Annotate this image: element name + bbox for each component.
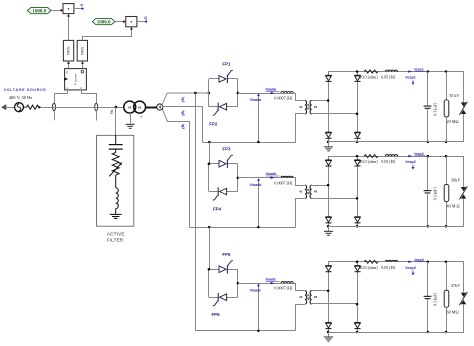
wire K1 to multiplier M1 xyxy=(51,9,63,12)
wire bridge leg right xyxy=(357,156,359,226)
node cap bottom xyxy=(427,331,430,334)
node bottom rail left leg xyxy=(327,225,330,228)
wire secondary top lead xyxy=(312,100,328,102)
diode D32 xyxy=(355,266,361,272)
node top rail right leg xyxy=(356,155,359,158)
svg-text:Iloada: Iloada xyxy=(266,87,277,91)
node P output xyxy=(74,3,84,9)
resistor Resp2 20 ohm xyxy=(364,155,378,158)
svg-text:Iesp1: Iesp1 xyxy=(415,68,424,72)
node bus to filter xyxy=(115,106,118,109)
power meter U1 P_power xyxy=(64,69,86,90)
thyristor FP3 xyxy=(219,155,233,168)
svg-text:0.05 [H]: 0.05 [H] xyxy=(381,159,396,164)
svg-text:0.05 [H]: 0.05 [H] xyxy=(381,265,396,270)
svg-text:Iesp3: Iesp3 xyxy=(415,258,424,262)
svg-text:#1: #1 xyxy=(299,295,303,299)
wire FP5 feed xyxy=(209,227,211,269)
wire phase A xyxy=(162,93,209,105)
value label 20.0 ohm 0.05 H xyxy=(359,159,395,164)
thyristor FP6 xyxy=(213,293,227,306)
node secondary top junction xyxy=(327,290,330,293)
wire secondary top lead xyxy=(312,185,328,187)
diode D14 xyxy=(355,132,361,138)
resistor Rmohm1 xyxy=(444,72,449,142)
svg-text:20.0 [ohm]: 20.0 [ohm] xyxy=(359,265,378,270)
svg-text:RMS: RMS xyxy=(67,46,71,55)
wire load feed b xyxy=(238,177,296,179)
node resistor bottom xyxy=(445,331,448,334)
svg-text:20 MΩ: 20 MΩ xyxy=(447,119,459,124)
node cap bottom xyxy=(427,225,430,228)
value label 20.0 ohm 0.05 H xyxy=(359,75,395,80)
svg-text:Q: Q xyxy=(144,16,147,20)
svg-text:FP3: FP3 xyxy=(222,146,231,151)
svg-text:FILTER.: FILTER. xyxy=(107,238,125,243)
diode D34 xyxy=(355,323,361,329)
svg-text:RMS: RMS xyxy=(81,46,85,55)
svg-text:P power: P power xyxy=(74,74,78,85)
wire RMS1 to M1 xyxy=(67,14,70,41)
wire phase B xyxy=(163,107,203,143)
node resistor bottom xyxy=(445,141,448,144)
breakout B0 xyxy=(157,104,163,110)
thyristor FP1 xyxy=(219,70,233,83)
diode D33 xyxy=(326,323,332,329)
wire rectifier bottom rail section 2 xyxy=(328,226,464,228)
active filter inductor xyxy=(116,188,119,214)
svg-text:Ig2: Ig2 xyxy=(181,111,185,116)
wire FP3 feed xyxy=(209,142,211,164)
wire secondary bottom lead xyxy=(312,303,357,305)
wire bridge leg left xyxy=(328,156,330,226)
wire thyristor loop FP5/FP6 xyxy=(209,269,238,297)
inductor La 0.0007 H xyxy=(281,92,293,93)
wire rectifier top rail section 3 xyxy=(328,261,464,263)
svg-text:#1: #1 xyxy=(128,106,132,110)
wire feed jog to transformer primary xyxy=(294,284,305,291)
wire phase C xyxy=(163,110,190,228)
node Vloada tail xyxy=(257,141,260,144)
ground T0 xyxy=(126,113,135,128)
node cap top xyxy=(427,155,430,158)
inductor Lesp2 xyxy=(385,155,397,156)
svg-text:Vesp2: Vesp2 xyxy=(405,160,415,164)
capacitor Cesp3 0.3 uF xyxy=(424,262,432,332)
wire rectifier bottom rail section 3 xyxy=(328,332,464,334)
wire rectifier top rail section 2 xyxy=(328,156,464,158)
diode D23 xyxy=(326,217,332,223)
wire rectifier bottom rail section 1 xyxy=(328,141,464,143)
spark gap G3 xyxy=(459,262,467,332)
wire secondary top lead xyxy=(312,290,328,292)
diode D11 xyxy=(326,75,332,81)
RMS block RMS2 xyxy=(77,40,87,61)
wire thyristor loop FP3/FP4 xyxy=(209,164,238,192)
diode D13 xyxy=(326,132,332,138)
svg-text:Ig1: Ig1 xyxy=(181,97,185,102)
wire load feed a xyxy=(238,93,296,95)
label Vesp1 xyxy=(405,76,415,86)
svg-text:60 MΩ: 60 MΩ xyxy=(447,309,459,314)
svg-text:20.0 [ohm]: 20.0 [ohm] xyxy=(359,159,378,164)
wire net A long return xyxy=(196,94,296,331)
spark gap G1 xyxy=(459,72,467,142)
node cap top xyxy=(427,70,430,73)
wire K2 to multiplier M2 xyxy=(115,20,126,23)
wire secondary bottom lead xyxy=(312,113,357,115)
thyristor FP5 xyxy=(219,261,233,274)
wire bridge leg right xyxy=(357,262,359,332)
node bottom rail left leg xyxy=(327,331,330,334)
ground active filter xyxy=(110,214,122,218)
wire thyristor loop FP1/FP2 xyxy=(209,79,238,107)
wire load feed c xyxy=(238,283,296,285)
spark gap G2 xyxy=(459,156,467,226)
svg-text:Iloadc: Iloadc xyxy=(266,278,276,282)
svg-text:#1: #1 xyxy=(299,189,303,193)
wire T0 to breakout (3-phase) xyxy=(146,107,157,109)
svg-text:#2: #2 xyxy=(138,106,142,110)
voltmeter Vloadb xyxy=(257,178,260,227)
svg-text:50kV: 50kV xyxy=(451,177,460,182)
svg-text:Vesp1: Vesp1 xyxy=(405,76,415,80)
label Iesp2 xyxy=(408,152,425,157)
wire secondary bottom lead xyxy=(312,198,357,200)
active filter box xyxy=(97,135,134,226)
svg-text:0.0007 [H]: 0.0007 [H] xyxy=(274,180,293,185)
transformer T0 xyxy=(124,101,146,119)
svg-text:Vesp3: Vesp3 xyxy=(405,266,415,270)
svg-text:FP6: FP6 xyxy=(212,312,221,317)
diode D12 xyxy=(355,75,361,81)
RMS block RMS1 xyxy=(63,40,73,61)
svg-text:47kV: 47kV xyxy=(451,283,460,288)
wire transformer primary return xyxy=(296,199,305,228)
voltage source VS xyxy=(15,103,24,112)
sensor V2 xyxy=(95,103,98,120)
svg-text:VOLTAGE SOURCE: VOLTAGE SOURCE xyxy=(4,88,47,92)
resistor Rmohm3 xyxy=(444,262,449,332)
svg-text:#2: #2 xyxy=(314,189,318,193)
svg-text:#2: #2 xyxy=(314,295,318,299)
svg-text:40 M Ω: 40 M Ω xyxy=(447,204,460,209)
active filter capacitor xyxy=(109,135,123,152)
wire bus to active filter xyxy=(115,107,117,135)
node FP5 corner xyxy=(208,268,211,271)
wire terminal to source xyxy=(6,107,15,109)
wire transformer primary return xyxy=(296,305,305,331)
svg-text:FP1: FP1 xyxy=(222,62,231,67)
node phase A tap xyxy=(194,92,197,95)
label Iloadc xyxy=(266,278,280,285)
svg-text:ACTIVE: ACTIVE xyxy=(107,232,125,237)
transformer Tb xyxy=(305,185,312,199)
resistor Resp3 20 ohm xyxy=(364,260,378,263)
svg-text:Vloada: Vloada xyxy=(250,98,263,102)
node secondary bottom junction xyxy=(356,113,359,116)
node Vloadb tail xyxy=(257,226,260,229)
svg-text:55 kV: 55 kV xyxy=(449,93,459,98)
node bottom rail left leg xyxy=(327,141,330,144)
node Q output xyxy=(137,16,147,23)
node net B to FP3 feed xyxy=(208,141,211,144)
wire bridge leg left xyxy=(328,72,330,142)
svg-text:20.0 [ohm]: 20.0 [ohm] xyxy=(359,75,378,80)
node resistor top xyxy=(445,155,448,158)
svg-text:Ig3: Ig3 xyxy=(181,124,185,129)
svg-text:Vloadc: Vloadc xyxy=(250,288,262,292)
transformer Tc xyxy=(305,291,312,305)
node loop output xyxy=(237,282,240,285)
wire U1 pin A to sensor xyxy=(55,90,68,104)
node cap bottom xyxy=(427,141,430,144)
diode D24 xyxy=(355,217,361,223)
wire P_power Q-out to RMS2 xyxy=(81,61,84,68)
transformer Ta xyxy=(305,100,312,114)
svg-text:0.3 [uF]: 0.3 [uF] xyxy=(432,292,437,306)
svg-text:Δ: Δ xyxy=(140,115,142,119)
node top rail right leg xyxy=(356,261,359,264)
wire bridge leg right xyxy=(357,72,359,142)
inductor Lc 0.0007 H xyxy=(281,282,293,283)
svg-text:#2: #2 xyxy=(314,105,318,109)
node resistor top xyxy=(445,261,448,264)
wire feed jog to transformer primary xyxy=(294,178,305,186)
wire U1 pin B to sensor xyxy=(82,90,97,104)
wire RMS2 to M2 xyxy=(83,27,133,41)
svg-text:0.3 [uF]: 0.3 [uF] xyxy=(432,187,437,201)
constant K2 1000.0 xyxy=(93,19,115,26)
capacitor Cesp2 0.3 uF xyxy=(424,156,432,226)
svg-text:#1: #1 xyxy=(299,105,303,109)
node resistor top xyxy=(445,70,448,73)
svg-text:P: P xyxy=(66,70,68,74)
wire P_power P-out to RMS1 xyxy=(67,61,70,68)
label Iloada xyxy=(266,87,280,94)
label Iesp3 xyxy=(408,258,425,263)
label Iesp1 xyxy=(408,68,425,73)
wire rectifier top rail section 1 xyxy=(328,71,464,73)
node secondary bottom junction xyxy=(356,303,359,306)
node phase A to FP1 xyxy=(208,92,211,95)
label Vesp3 xyxy=(405,266,415,276)
thyristor FP4 xyxy=(213,187,227,200)
resistor Rmohm2 xyxy=(444,156,449,226)
sensor V1 xyxy=(53,103,56,120)
wire feed jog to transformer primary xyxy=(294,94,305,101)
thyristor FP2 xyxy=(213,103,227,116)
inductor Lesp1 xyxy=(385,70,397,71)
label Vesp2 xyxy=(405,160,415,170)
wire main bus xyxy=(42,107,125,109)
svg-text:0.3 [uF]: 0.3 [uF] xyxy=(432,102,437,116)
label Iloadb xyxy=(266,172,280,179)
node top rail right leg xyxy=(356,70,359,73)
multiplier M1 xyxy=(63,4,74,14)
ground bridge 1 xyxy=(324,142,333,151)
svg-text:0.0007 [H]: 0.0007 [H] xyxy=(274,286,293,291)
wire net C return (section b) xyxy=(190,227,296,229)
node resistor bottom xyxy=(445,225,448,228)
node loop output xyxy=(237,176,240,179)
ground bridge 3 xyxy=(324,332,333,341)
node secondary top junction xyxy=(327,184,330,187)
diode D21 xyxy=(326,160,332,166)
active filter variable resistor xyxy=(109,153,122,188)
svg-text:Iloadb: Iloadb xyxy=(266,172,277,176)
node bottom rail right leg xyxy=(356,331,359,334)
diode D31 xyxy=(326,266,332,272)
wire bridge leg left xyxy=(328,262,330,332)
inductor Lb 0.0007 H xyxy=(281,176,293,177)
svg-text:1000.0: 1000.0 xyxy=(97,21,111,26)
node secondary bottom junction xyxy=(356,197,359,200)
multiplier M2 xyxy=(126,17,137,27)
svg-text:Vs: Vs xyxy=(110,110,114,114)
node FP3 corner xyxy=(208,162,211,165)
node bottom rail right leg xyxy=(356,225,359,228)
svg-text:FP5: FP5 xyxy=(222,252,231,257)
capacitor Cesp1 0.3 uF xyxy=(424,72,432,142)
node loop output xyxy=(237,92,240,95)
wire net B return (section a) xyxy=(203,142,296,144)
node cap top xyxy=(427,261,430,264)
voltmeter Vloadc xyxy=(257,284,260,331)
node secondary top junction xyxy=(327,99,330,102)
inductor Lesp3 xyxy=(385,260,397,261)
svg-text:0.0007 [H]: 0.0007 [H] xyxy=(274,96,293,101)
svg-text:0.05 [H]: 0.05 [H] xyxy=(381,75,396,80)
svg-text:Vloadb: Vloadb xyxy=(250,183,263,187)
diode D22 xyxy=(355,160,361,166)
constant K1 1000.0 xyxy=(28,7,52,14)
node bottom rail right leg xyxy=(356,141,359,144)
voltmeter Vloada xyxy=(257,93,260,142)
source resistor Rs xyxy=(24,105,42,109)
resistor Resp1 20 ohm xyxy=(364,70,378,73)
node Vloadc tail xyxy=(257,330,260,333)
svg-text:1000.0: 1000.0 xyxy=(32,10,46,15)
svg-text:FP4: FP4 xyxy=(213,206,222,211)
value label 20.0 ohm 0.05 H xyxy=(359,265,395,270)
ground bridge 2 xyxy=(324,226,333,235)
wire transformer primary return xyxy=(296,114,305,143)
node net C to FP5 feed xyxy=(208,226,211,229)
svg-text:FP2: FP2 xyxy=(209,122,218,127)
terminal arrow xyxy=(2,105,6,110)
svg-text:Iesp2: Iesp2 xyxy=(415,152,424,156)
